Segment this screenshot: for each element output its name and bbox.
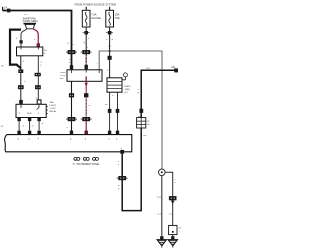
svg-text:(P): (P) <box>125 92 128 94</box>
svg-text:W-B: W-B <box>157 214 162 216</box>
svg-text:15A: 15A <box>115 13 120 17</box>
svg-text:6: 6 <box>118 164 120 166</box>
svg-text:2: 2 <box>112 95 114 97</box>
wires relay to junction block <box>19 121 39 131</box>
component box U1 <box>17 47 43 56</box>
wire: gray tap line <box>99 51 162 169</box>
svg-text:SW: SW <box>60 78 64 80</box>
wire: fuse F2 top stub <box>109 7 111 11</box>
connector 2 on lead <box>18 85 24 89</box>
wire: fuse F2 lead <box>109 27 111 78</box>
svg-text:LIGHT: LIGHT <box>50 105 57 107</box>
rheostat block <box>107 78 122 92</box>
svg-text:G: G <box>40 62 42 64</box>
ground right <box>171 236 174 239</box>
wire: top bus line <box>3 11 72 70</box>
wire: short pin right lead (red) <box>33 29 38 47</box>
wire: pink dashed segment <box>85 56 87 65</box>
relay top connectors <box>19 100 23 104</box>
svg-text:1: 1 <box>118 161 120 163</box>
junction connector J5 <box>137 118 146 128</box>
connector code symbols below box <box>74 157 77 160</box>
wire: short pin left lead <box>21 29 27 47</box>
svg-text:1: 1 <box>175 179 177 181</box>
svg-text:G: G <box>118 185 120 187</box>
thick feeder wire <box>10 30 21 69</box>
gauge circle <box>159 169 166 176</box>
svg-text:* *: * * <box>24 13 27 17</box>
svg-text:LIGHT: LIGHT <box>60 72 67 74</box>
noise filter box <box>169 225 177 234</box>
svg-text:14: 14 <box>108 46 111 48</box>
svg-text:RHEO: RHEO <box>125 86 132 88</box>
connector on right lead <box>35 73 41 77</box>
svg-text:2: 2 <box>24 81 26 83</box>
svg-text:1G: 1G <box>92 159 95 161</box>
junction block top connectors (relay side) <box>17 131 20 135</box>
svg-text:5: 5 <box>67 43 69 45</box>
svg-text:2: 2 <box>40 65 42 67</box>
svg-text:*2: *2 <box>178 231 181 233</box>
svg-text:R: R <box>118 189 120 191</box>
svg-text:CONT: CONT <box>60 75 67 77</box>
svg-text:TAIL: TAIL <box>50 101 55 104</box>
svg-text:2: 2 <box>44 53 46 55</box>
svg-text:G: G <box>137 92 139 94</box>
red mark inside switch <box>85 76 87 81</box>
relay box K1 <box>16 104 46 117</box>
wire: U1 bottom-right lead <box>37 56 39 100</box>
svg-text:NF: NF <box>178 228 182 230</box>
svg-text:6: 6 <box>175 182 177 184</box>
junction block J/B <box>5 135 132 152</box>
connector on lead <box>18 69 23 73</box>
svg-text:W: W <box>1 66 4 68</box>
svg-text:L: L <box>67 127 69 129</box>
svg-text:1: 1 <box>107 70 109 72</box>
svg-text:R: R <box>89 105 91 107</box>
svg-text:L: L <box>73 44 75 46</box>
svg-text:1K: 1K <box>44 50 47 52</box>
svg-text:W: W <box>22 126 25 128</box>
combination switch box <box>67 70 102 82</box>
node: left end tick <box>2 7 4 11</box>
junction connector on top bus <box>7 9 10 13</box>
connector on left lead <box>20 40 23 43</box>
svg-text:W-B: W-B <box>27 113 32 115</box>
ground left <box>160 236 163 239</box>
svg-text:B: B <box>32 126 34 128</box>
svg-text:W-B: W-B <box>157 197 162 199</box>
svg-text:(COWL SIDE): (COWL SIDE) <box>23 20 38 23</box>
wire: switch output black <box>71 81 73 134</box>
wire: fuse F1 lead <box>85 27 87 70</box>
svg-text:L: L <box>69 62 71 64</box>
svg-text:W-B: W-B <box>169 214 174 216</box>
svg-text:7.5A: 7.5A <box>91 13 97 17</box>
svg-text:J5: J5 <box>147 121 150 123</box>
svg-text:14: 14 <box>1 126 4 128</box>
wide connector on bus drop <box>68 50 76 54</box>
svg-text:1: 1 <box>34 39 36 41</box>
svg-text:L: L <box>88 38 90 40</box>
svg-text:1: 1 <box>137 89 139 91</box>
wire: branch right <box>165 172 173 236</box>
svg-text:FROM POWER SOURCE SYSTEM: FROM POWER SOURCE SYSTEM <box>75 3 116 7</box>
fuse F1 7.5A GAUGE <box>82 10 90 27</box>
rheostat bottom leads <box>110 92 118 130</box>
short pin connector body <box>24 23 37 25</box>
svg-text:CONT: CONT <box>50 108 57 110</box>
wire: fuse F1 top stub <box>85 7 87 11</box>
wire: U1 bottom-left lead <box>20 56 22 100</box>
wire: black L-run to tail lights <box>122 70 177 210</box>
svg-text:G: G <box>111 39 113 41</box>
svg-text:1: 1 <box>69 59 71 61</box>
wire: switch output red <box>85 81 87 93</box>
red connector at box entry <box>37 43 40 47</box>
connector 2 on right lead <box>35 85 41 89</box>
svg-text:1G: 1G <box>143 135 146 137</box>
fuse F2 15A TAIL <box>106 10 114 27</box>
connector at switch entry <box>70 65 73 69</box>
bulb circle <box>123 73 127 77</box>
svg-text:1: 1 <box>23 61 25 63</box>
svg-text:STAT: STAT <box>125 88 131 91</box>
svg-text:J/C: J/C <box>147 124 151 126</box>
svg-text:1: 1 <box>87 47 89 49</box>
svg-text:2: 2 <box>16 38 18 40</box>
svg-text:IK1: IK1 <box>147 68 151 70</box>
bottom edge connector <box>120 150 124 154</box>
svg-text:*2 : INSTRUMENT PANEL: *2 : INSTRUMENT PANEL <box>73 163 101 166</box>
svg-text:16: 16 <box>105 104 108 106</box>
relay bottom pins <box>17 118 20 122</box>
svg-text:R: R <box>42 123 44 125</box>
wire: gray drop below circle <box>161 176 163 237</box>
svg-text:1: 1 <box>106 39 108 41</box>
svg-text:RELAY: RELAY <box>50 110 58 113</box>
svg-text:7: 7 <box>96 63 98 65</box>
